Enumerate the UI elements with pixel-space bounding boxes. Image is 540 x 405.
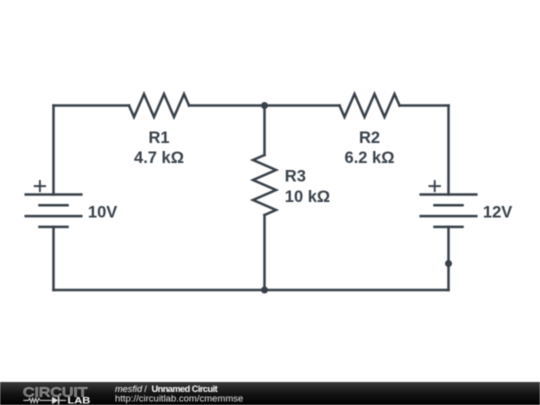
wire left vertical upper (52, 106, 55, 195)
wire middle vertical upper (263, 106, 266, 156)
node junction right (445, 260, 452, 267)
svg-text:R1: R1 (148, 129, 169, 147)
svg-text:R2: R2 (359, 129, 380, 147)
footer title line (115, 384, 218, 394)
battery V2 plate long bottom (421, 215, 477, 218)
wire right vertical lower (447, 227, 450, 290)
battery V1 plate short (40, 204, 68, 207)
plus sign V2 (429, 180, 441, 192)
wire right vertical upper (447, 106, 450, 195)
wire top-right horizontal (400, 104, 449, 107)
wire top-middle (189, 104, 340, 107)
svg-text:http://circuitlab.com/cmemmse: http://circuitlab.com/cmemmse (115, 393, 243, 404)
logo wire zigzag (23, 398, 52, 402)
plus sign V1 (34, 180, 46, 192)
svg-text:LAB: LAB (68, 396, 91, 405)
node junction top middle (261, 102, 268, 109)
wire bottom horizontal (54, 289, 449, 292)
battery V2 plate short bottom (435, 226, 463, 229)
svg-text:10V: 10V (88, 204, 117, 222)
svg-text:6.2 kΩ: 6.2 kΩ (345, 149, 395, 167)
node junction bottom middle (261, 287, 268, 294)
wire left vertical lower (52, 227, 55, 290)
battery V1 plate short bottom (40, 226, 68, 229)
wire top-left horizontal (54, 104, 130, 107)
resistor R1 (129, 94, 189, 117)
logo diode (52, 397, 66, 405)
battery V1 plate long top (26, 193, 82, 196)
svg-text:4.7 kΩ: 4.7 kΩ (134, 149, 184, 167)
svg-text:10 kΩ: 10 kΩ (285, 188, 330, 206)
battery V2 plate short (435, 204, 463, 207)
svg-text:12V: 12V (483, 204, 512, 222)
battery V1 plate long bottom (26, 215, 82, 218)
battery V2 plate long top (421, 193, 477, 196)
resistor R2 (340, 94, 400, 117)
resistor R3 (253, 155, 276, 215)
wire middle vertical lower (263, 215, 266, 290)
svg-text:R3: R3 (285, 168, 306, 186)
